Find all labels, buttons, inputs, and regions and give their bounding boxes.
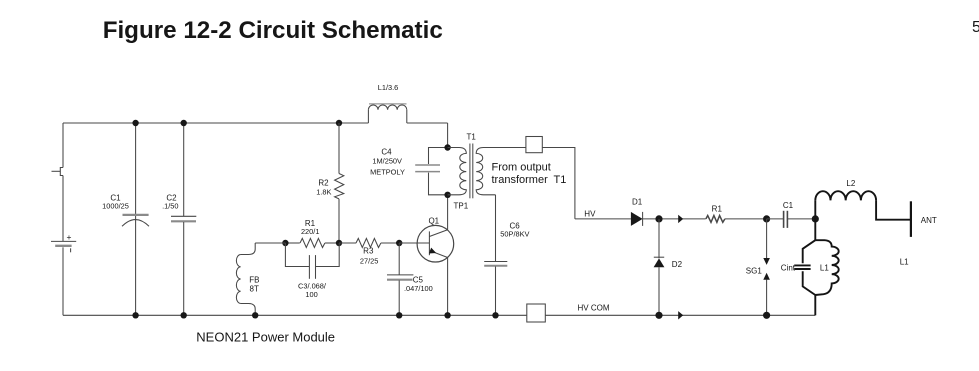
svg-text:HV: HV <box>584 209 596 218</box>
label: From output transformer T1 <box>492 162 567 187</box>
resistor R2 1.8K (vertical) <box>316 123 344 243</box>
wire: drop from top rail to T1 primary top <box>447 123 449 148</box>
svg-text:.1/50: .1/50 <box>162 202 178 211</box>
svg-text:transformer: transformer <box>492 174 549 186</box>
svg-text:NEON21 Power Module: NEON21 Power Module <box>196 330 335 345</box>
svg-text:L1: L1 <box>820 263 829 272</box>
wire: tank bottom to HV COM rail <box>814 295 816 315</box>
svg-text:R2: R2 <box>318 179 329 188</box>
svg-text:1000/25: 1000/25 <box>102 202 129 211</box>
wire: connector square to HV corner <box>542 148 575 219</box>
node: bottom rail / C2 junction <box>181 312 187 318</box>
connector square on bottom rail (HV COM) <box>527 304 546 322</box>
capacitor C5 .047/100 <box>387 243 433 315</box>
svg-text:L1/3.6: L1/3.6 <box>378 83 399 92</box>
node: bottom rail / SG1 junction <box>763 312 770 319</box>
svg-text:L1: L1 <box>900 257 909 266</box>
svg-text:T1: T1 <box>467 133 477 142</box>
node: D1 / D2 junction <box>655 215 662 222</box>
flow arrow on HV COM rail <box>678 311 683 319</box>
inductor FB 8T (feedback winding) <box>236 243 285 315</box>
wire: left rail below battery to bottom rail <box>62 247 64 315</box>
svg-text:C3/.068/: C3/.068/ <box>298 282 327 291</box>
transformer T1 secondary winding <box>476 148 526 195</box>
node: C1 / L2 / tank junction <box>812 215 819 222</box>
antenna ANT terminal bar <box>910 201 912 237</box>
wire: bottom rail left of connector square <box>63 314 527 316</box>
svg-text:Q1: Q1 <box>428 217 439 226</box>
transformer T1 primary winding <box>448 148 467 195</box>
svg-text:C4: C4 <box>381 148 392 157</box>
svg-text:1M/250V: 1M/250V <box>372 157 402 166</box>
capacitor C1 <box>102 123 149 315</box>
capacitor C4 1M/250V METPOLY <box>370 148 447 195</box>
svg-text:100: 100 <box>305 290 317 299</box>
wire: D1 cathode to R1 with flow arrow <box>643 218 706 220</box>
node: R1 right junction <box>336 240 342 246</box>
capacitor C6 50P/8KV <box>484 195 529 315</box>
svg-text:1.8K: 1.8K <box>316 187 331 196</box>
svg-text:8T: 8T <box>250 284 259 293</box>
svg-text:D2: D2 <box>672 260 683 269</box>
diode D2 <box>654 219 683 315</box>
transistor Q1 (NPN) <box>399 217 454 262</box>
svg-text:R1: R1 <box>712 204 723 213</box>
node: R1 left junction <box>282 240 288 246</box>
wire: junction down to tank top node <box>814 219 816 240</box>
node: bottom rail / C5 junction <box>396 312 402 318</box>
node: bottom rail / C6 junction <box>492 312 498 318</box>
svg-text:Figure 12-2 Circuit Schematic: Figure 12-2 Circuit Schematic <box>103 17 443 44</box>
node: T1 primary top junction <box>444 144 450 150</box>
wire: left rail upper segment <box>62 123 64 168</box>
wire: Q1 collector to T1 primary bottom <box>447 195 449 230</box>
svg-text:50P/8KV: 50P/8KV <box>500 230 529 239</box>
svg-text:5: 5 <box>972 19 979 36</box>
node: top rail / C1 junction <box>132 120 138 126</box>
svg-text:R3: R3 <box>363 247 374 256</box>
resistor R1 220/1 (horizontal) <box>285 219 339 247</box>
connector square on T1 secondary top lead <box>526 137 542 153</box>
svg-text:.047/100: .047/100 <box>404 284 433 293</box>
svg-text:T1: T1 <box>554 174 567 186</box>
svg-text:From output: From output <box>492 162 551 174</box>
node: R3 / C5 / Q1 base junction <box>396 240 402 246</box>
connector J1 (inline jack on left rail) <box>52 168 64 176</box>
capacitor C1 (output coupling) <box>767 201 816 228</box>
svg-text:FB: FB <box>249 275 259 284</box>
tank circuit: Cint and L1 in parallel <box>794 219 839 315</box>
svg-text:Cint: Cint <box>781 263 796 272</box>
wire: HV COM rail <box>545 314 815 316</box>
svg-text:220/1: 220/1 <box>301 227 320 236</box>
wire: top rail from left corner to L1 hump <box>63 122 368 124</box>
capacitor C3 .068/100 (parallel with R1) <box>285 243 339 299</box>
node: bottom rail / D2 junction <box>655 312 662 319</box>
wire: HV line from corner to D1 <box>575 218 631 220</box>
svg-text:C1: C1 <box>783 201 794 210</box>
svg-text:TP1: TP1 <box>454 202 469 211</box>
svg-text:ANT: ANT <box>921 216 937 225</box>
wire: left rail between connector and battery <box>62 176 64 242</box>
battery B1 <box>51 232 76 252</box>
node: bottom rail / FB junction <box>252 312 258 318</box>
wire: top rail from L1 hump to T1 drop <box>407 122 448 124</box>
svg-text:METPOLY: METPOLY <box>370 167 405 176</box>
transformer T1 core <box>470 144 473 199</box>
node: top rail / C2 junction <box>181 120 187 126</box>
svg-text:+: + <box>67 232 72 242</box>
resistor R3 27/25 (horizontal) <box>339 238 399 265</box>
inductor L1/3.6 (hump on top rail) <box>368 83 406 123</box>
node: top rail / R2 junction <box>336 120 342 126</box>
wire: Q1 emitter to bottom rail <box>447 258 449 316</box>
diode D1 <box>631 197 643 226</box>
resistor R1 (output network, horizontal) <box>706 204 767 222</box>
svg-text:D1: D1 <box>632 197 643 206</box>
inductor L1 (right branch) <box>815 240 838 295</box>
svg-text:HV COM: HV COM <box>578 303 610 312</box>
node: R1 / SG1 junction <box>763 215 770 222</box>
inductor L2 (antenna loading coil) <box>815 191 910 220</box>
svg-text:SG1: SG1 <box>746 267 763 276</box>
node: T1 primary bottom junction (TP1) <box>444 192 450 198</box>
svg-text:L2: L2 <box>846 179 855 188</box>
flow arrow on HV line <box>678 215 683 223</box>
capacitor Cint (left branch) <box>803 240 816 263</box>
node: bottom rail / Q1 emitter junction <box>444 312 450 318</box>
capacitor C2 <box>162 123 196 315</box>
node: bottom rail / C1 junction <box>132 312 138 318</box>
svg-text:27/25: 27/25 <box>360 256 379 265</box>
spark gap SG1 <box>746 219 770 315</box>
